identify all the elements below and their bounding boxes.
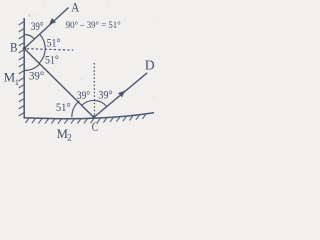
- svg-text:C: C: [92, 120, 98, 134]
- arc at B: 39 deg between reflected ray and mirror, r=22: [24, 64, 40, 71]
- faint speck: [28, 14, 30, 16]
- mirror M2 hatching: [25, 114, 146, 124]
- vertex dot at B: [23, 47, 26, 50]
- arc at B: 39 deg between mirror and incident ray, r=14: [24, 34, 34, 39]
- ray B to C: [24, 49, 94, 118]
- svg-text:1: 1: [15, 77, 19, 87]
- arc at B: 51 deg between incident ray and normal, r=21: [40, 34, 46, 49]
- arrowhead on ray A-B: [49, 18, 56, 25]
- svg-text:A: A: [71, 1, 79, 15]
- svg-text:51°: 51°: [56, 100, 71, 114]
- svg-text:39°: 39°: [29, 69, 44, 83]
- svg-text:D: D: [145, 57, 155, 72]
- dashed normal at B: [27, 49, 73, 50]
- dashed normal at C: [93, 63, 95, 116]
- svg-text:B: B: [10, 41, 18, 55]
- svg-text:51°: 51°: [47, 36, 61, 50]
- vertex dot at C: [92, 115, 95, 118]
- svg-text:2: 2: [67, 133, 72, 143]
- paper background: [0, 0, 164, 150]
- arc at C: 51 deg between mirror and incident ray, r=22: [72, 101, 80, 117]
- mirror M1 line: [23, 18, 25, 118]
- arc at B: 51 deg between normal and reflected ray, r=21: [39, 49, 45, 63]
- arrowhead on ray C-D: [118, 91, 125, 98]
- paper noise: [12, 2, 159, 131]
- mirror M2 line: [24, 113, 155, 119]
- svg-text:51°: 51°: [45, 52, 59, 66]
- ray A to B (incident ray): [24, 8, 68, 49]
- mirror M1 hatching: [19, 22, 25, 116]
- svg-text:90° – 39° = 51°: 90° – 39° = 51°: [66, 20, 121, 31]
- ray C to D: [94, 73, 147, 118]
- svg-text:39°: 39°: [98, 88, 113, 102]
- arc at C: double 39 deg arc across normal, r=17: [82, 100, 107, 106]
- svg-text:39°: 39°: [31, 19, 44, 33]
- svg-text:39°: 39°: [77, 88, 90, 102]
